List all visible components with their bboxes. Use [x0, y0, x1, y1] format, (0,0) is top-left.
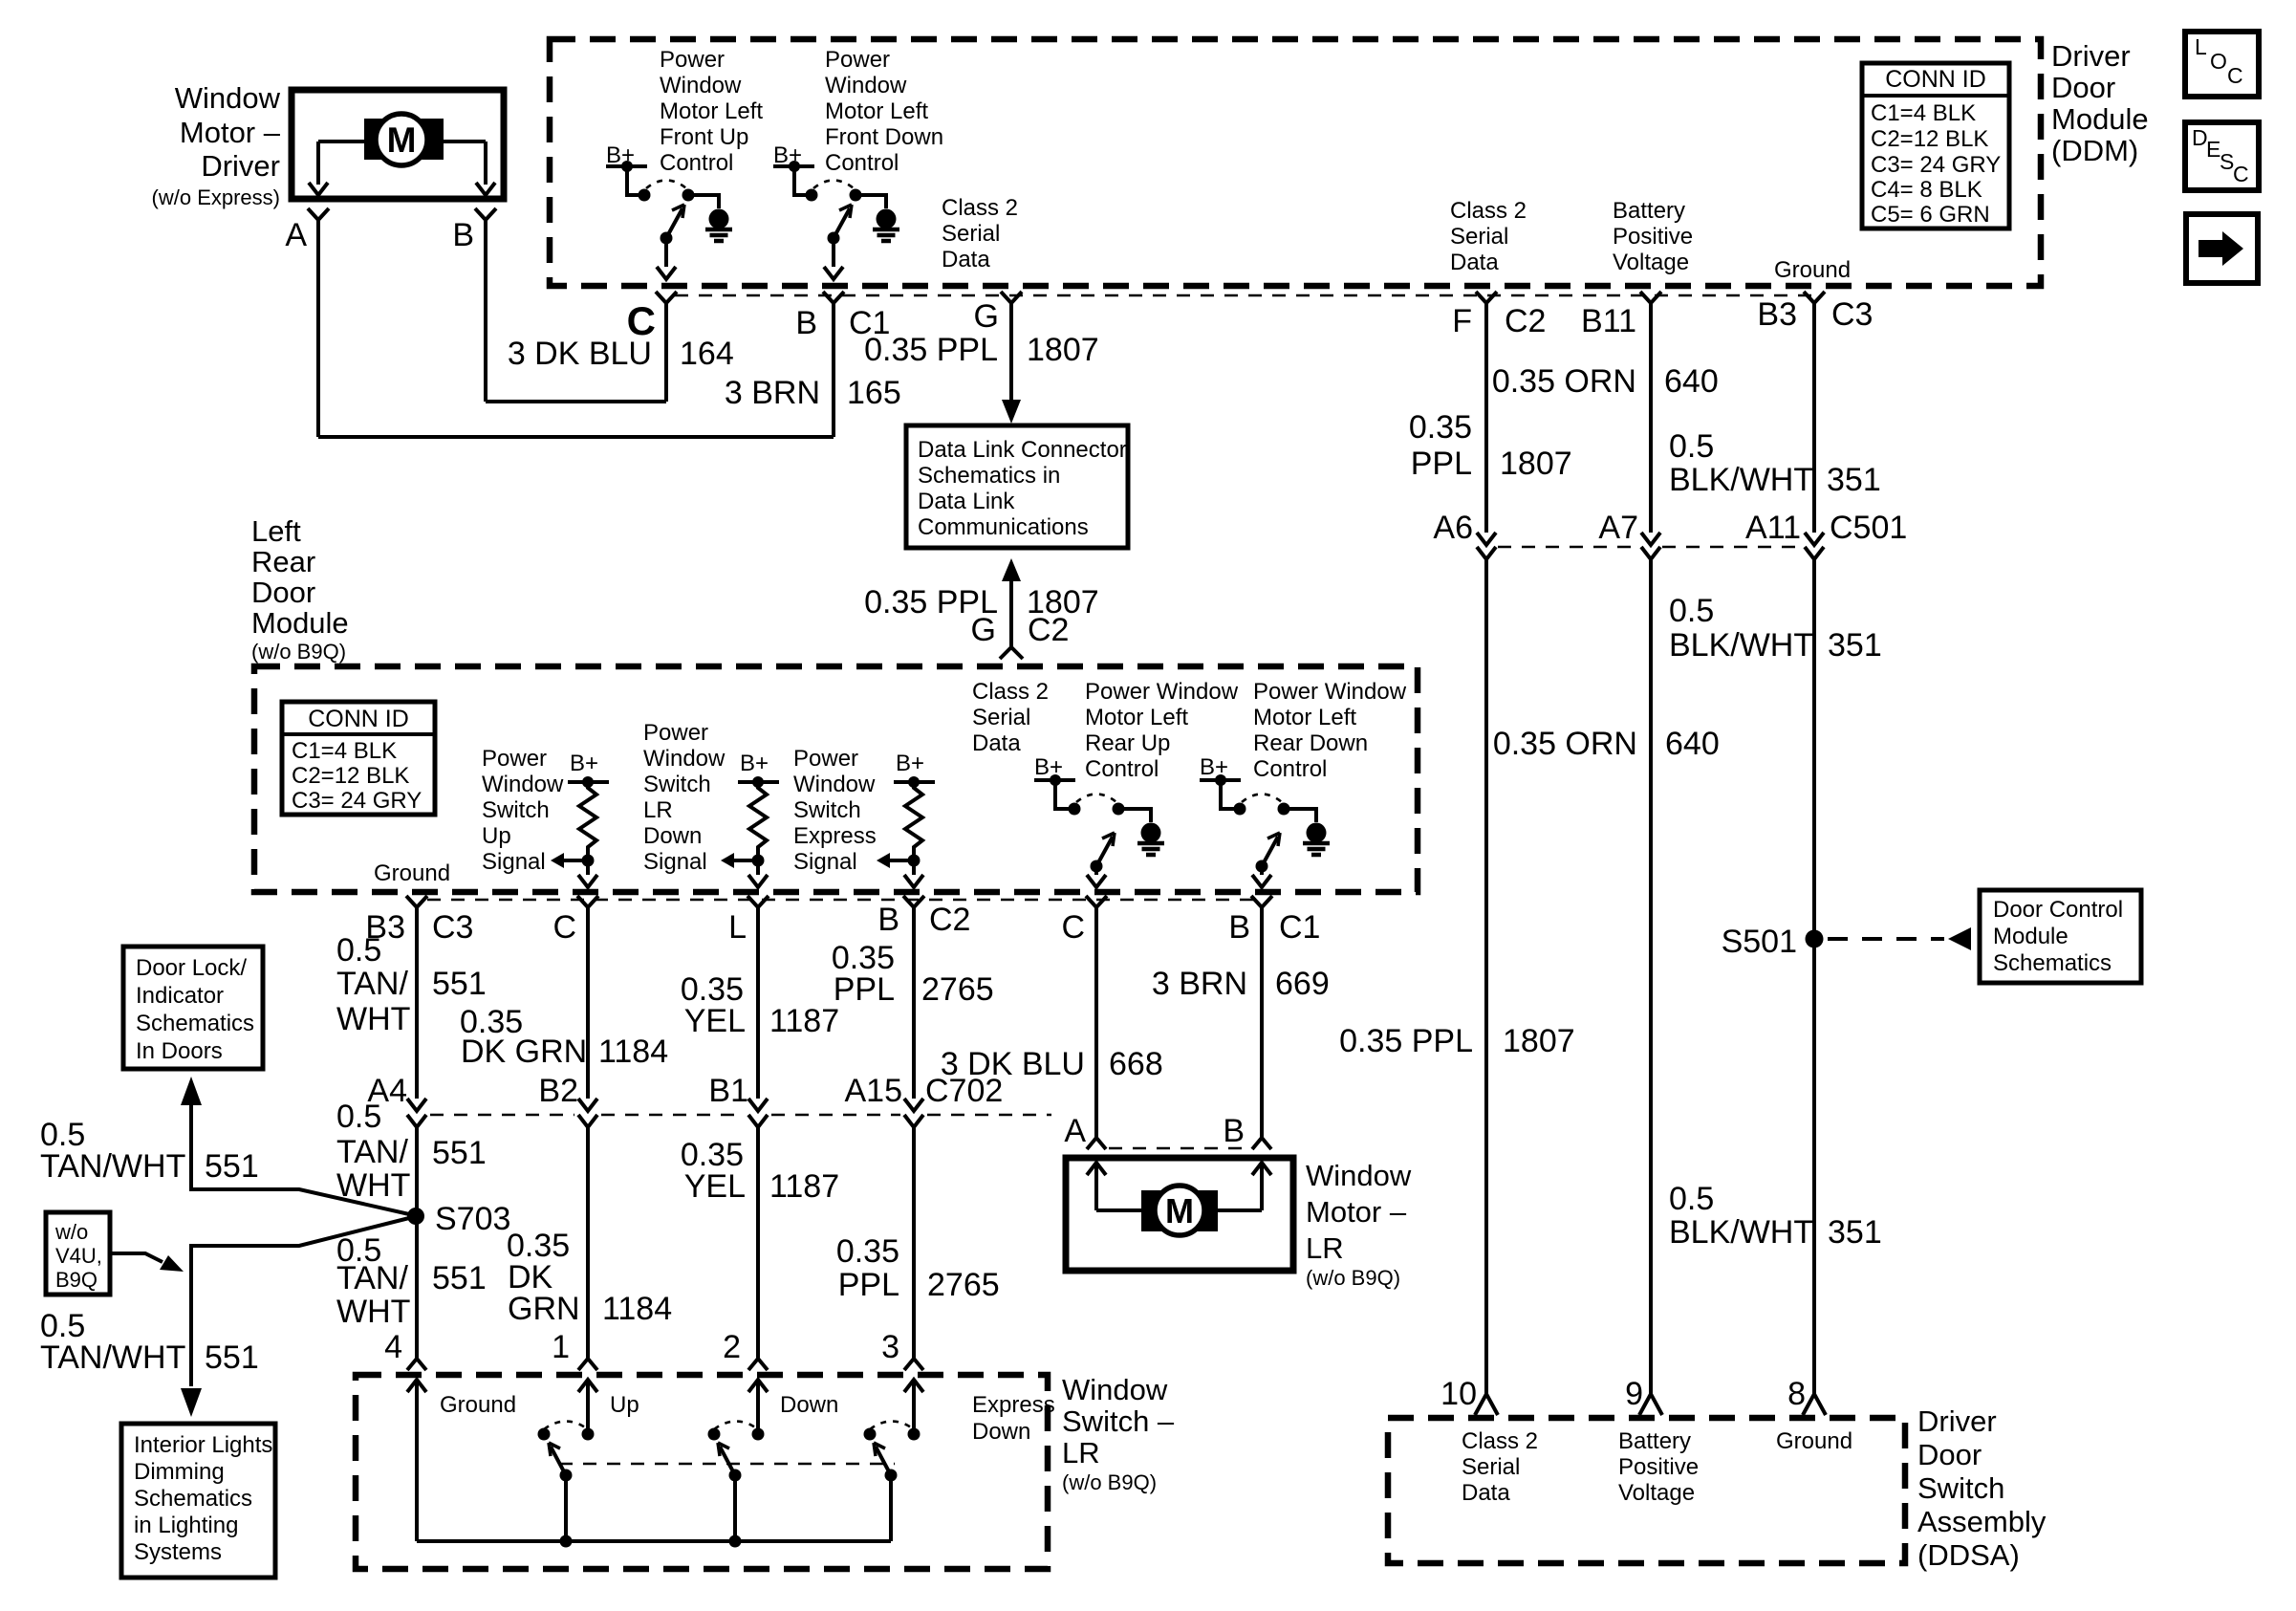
ground wire down to bus: [415, 1380, 419, 1541]
svg-text:Signal: Signal: [793, 849, 857, 875]
svg-text:Power: Power: [825, 47, 890, 73]
svg-text:1807: 1807: [1500, 446, 1572, 482]
svg-text:V4U,: V4U,: [55, 1244, 102, 1268]
svg-text:M: M: [1165, 1191, 1194, 1230]
wire from B down: [484, 233, 487, 402]
label 0.5 TAN/WHT 551 (lower mid): [336, 1099, 487, 1204]
arrow down to interior lights box: [181, 1388, 202, 1417]
svg-text:Window: Window: [175, 81, 281, 115]
svg-text:B: B: [452, 217, 474, 253]
svg-text:Interior Lights: Interior Lights: [134, 1432, 272, 1458]
svg-text:L: L: [2195, 34, 2207, 59]
resistor R-up: [551, 751, 609, 887]
pin B C1 connector: [823, 292, 844, 316]
svg-text:Switch: Switch: [793, 797, 861, 823]
pin L connector (down signal): [747, 896, 769, 921]
svg-text:1: 1: [552, 1329, 570, 1365]
svg-text:Data Link Connector: Data Link Connector: [918, 437, 1127, 463]
svg-text:B: B: [1223, 1113, 1245, 1149]
wires down to window switch LR: [415, 1127, 419, 1359]
arrow up to door lock box: [181, 1077, 202, 1105]
svg-text:Motor Left: Motor Left: [825, 98, 928, 124]
svg-text:G: G: [974, 298, 999, 335]
motor M1 symbol: [364, 114, 444, 165]
svg-text:Up: Up: [482, 823, 511, 849]
wire horizontal BRN 165 run: [318, 435, 834, 439]
svg-text:Class 2: Class 2: [1450, 198, 1527, 224]
svg-text:Communications: Communications: [918, 514, 1089, 540]
svg-text:10: 10: [1440, 1376, 1477, 1412]
svg-text:LR: LR: [643, 797, 673, 823]
contact dots SW1: [639, 189, 651, 202]
DESC box: [2185, 122, 2259, 190]
label Window Motor - LR: [1306, 1159, 1412, 1290]
switch K2 down: [708, 1422, 765, 1542]
svg-text:2765: 2765: [921, 971, 994, 1008]
svg-text:0.5: 0.5: [336, 932, 381, 969]
wire B+ to contact: [794, 166, 806, 195]
svg-text:Serial: Serial: [1450, 224, 1508, 250]
svg-text:WHT: WHT: [336, 1294, 410, 1330]
svg-text:B9Q: B9Q: [55, 1268, 97, 1292]
svg-text:C501: C501: [1830, 510, 1907, 546]
arrow from w/o box: [110, 1253, 162, 1262]
svg-text:4: 4: [384, 1329, 402, 1365]
pin B11 connector: [1640, 292, 1661, 316]
svg-text:0.35: 0.35: [1409, 409, 1472, 446]
label 0.35 PPL 1807 (F wire upper): [1409, 409, 1572, 482]
svg-text:0.5: 0.5: [1669, 1181, 1714, 1217]
door lock indicator schematics box: [123, 947, 263, 1069]
svg-text:Rear: Rear: [251, 545, 315, 578]
svg-text:DK GRN: DK GRN: [461, 1034, 587, 1070]
svg-text:Data: Data: [972, 730, 1021, 756]
svg-text:0.5: 0.5: [1669, 593, 1714, 629]
svg-text:Class 2: Class 2: [1462, 1428, 1538, 1454]
svg-text:Front Down: Front Down: [825, 124, 943, 150]
pin wires down to contacts: [586, 1380, 590, 1428]
svg-text:YEL: YEL: [684, 1168, 746, 1205]
svg-text:Switch: Switch: [482, 797, 550, 823]
connector pin B: [475, 208, 496, 233]
svg-text:C702: C702: [925, 1073, 1003, 1109]
svg-text:A: A: [1064, 1113, 1086, 1149]
pin C connector (up signal): [577, 896, 598, 921]
wire contact to ground SW2: [856, 195, 886, 208]
arrow down to pin A inside box: [309, 183, 328, 195]
svg-text:Switch –: Switch –: [1062, 1404, 1175, 1438]
svg-text:B+: B+: [570, 751, 598, 776]
svg-text:9: 9: [1625, 1376, 1643, 1412]
svg-text:Positive: Positive: [1613, 224, 1693, 250]
w/o V4U B9Q box: [46, 1212, 110, 1295]
svg-text:551: 551: [205, 1339, 259, 1376]
label Window Motor - Driver: [152, 81, 281, 209]
window motor driver box: [292, 90, 504, 199]
wire rear-down pin down to motor B: [1260, 921, 1264, 1138]
pin B3 C3 connector: [1804, 292, 1825, 316]
switch K3 express: [864, 1422, 921, 1542]
svg-text:3 DK BLU: 3 DK BLU: [508, 336, 652, 372]
svg-text:BLK/WHT: BLK/WHT: [1669, 462, 1813, 498]
switch SW4 Rear Down: [1200, 754, 1330, 887]
svg-text:Power Window: Power Window: [1253, 679, 1407, 705]
dashed travel arc SW2: [813, 181, 854, 189]
svg-text:8: 8: [1787, 1376, 1806, 1412]
DDSA dashed box: [1388, 1418, 1905, 1563]
pin B3 C3 connector (LRDM): [406, 896, 427, 921]
svg-text:Window: Window: [1306, 1159, 1412, 1192]
Driver Door Module dashed box: [550, 39, 2041, 286]
svg-text:LR: LR: [1062, 1436, 1100, 1469]
svg-text:C2: C2: [1028, 612, 1069, 648]
svg-text:2765: 2765: [927, 1267, 1000, 1303]
svg-text:A7: A7: [1598, 510, 1638, 546]
label Power Window Switch Up Signal: [482, 746, 564, 875]
svg-text:Window: Window: [793, 772, 876, 797]
up arrows on pin wires: [407, 1380, 426, 1392]
svg-text:BLK/WHT: BLK/WHT: [1669, 627, 1813, 664]
svg-text:Front Up: Front Up: [660, 124, 748, 150]
svg-text:C3= 24 GRY: C3= 24 GRY: [292, 788, 422, 814]
svg-text:Control: Control: [825, 150, 899, 176]
door control module schematics box: [1980, 890, 2141, 983]
label 0.35 PPL 2765 (upper): [832, 940, 994, 1008]
svg-text:S501: S501: [1722, 924, 1797, 960]
window motor LR box: [1066, 1158, 1293, 1271]
svg-text:Class 2: Class 2: [972, 679, 1049, 705]
svg-text:0.35 PPL: 0.35 PPL: [1339, 1023, 1473, 1059]
svg-text:2: 2: [723, 1329, 741, 1365]
pin F C2 connector: [1476, 292, 1497, 316]
switch SW2 Front Down: [773, 142, 899, 279]
svg-text:Door: Door: [251, 576, 315, 609]
svg-text:1187: 1187: [769, 1168, 839, 1205]
svg-text:0.35: 0.35: [836, 1233, 899, 1270]
svg-text:(w/o B9Q): (w/o B9Q): [251, 640, 346, 664]
svg-text:Motor Left: Motor Left: [1253, 705, 1356, 730]
label 0.5 BLK/WHT 351 (second): [1669, 593, 1882, 664]
label Class 2 Serial Data (DDM G pin): [942, 195, 1018, 272]
svg-text:B+: B+: [740, 751, 769, 776]
svg-text:Data Link: Data Link: [918, 489, 1015, 514]
svg-text:Window: Window: [825, 73, 907, 98]
svg-text:Serial: Serial: [942, 221, 1000, 247]
wire motor leads: [318, 142, 486, 185]
svg-text:A11: A11: [1745, 510, 1801, 546]
svg-text:Motor Left: Motor Left: [660, 98, 763, 124]
label 0.35 DK GRN 1184 (upper): [460, 1004, 668, 1070]
contact dots SW2: [806, 189, 818, 202]
svg-text:Rear Up: Rear Up: [1085, 730, 1170, 756]
svg-text:B1: B1: [708, 1073, 748, 1109]
svg-text:551: 551: [432, 1135, 487, 1171]
svg-text:Dimming: Dimming: [134, 1459, 225, 1485]
label 0.5 BLK/WHT 351 (upper): [1669, 428, 1881, 498]
wires motor LR leads: [1096, 1208, 1262, 1212]
svg-text:Module: Module: [2051, 102, 2149, 136]
wire contact to ground SW1: [688, 195, 719, 208]
svg-text:in Lighting: in Lighting: [134, 1513, 238, 1538]
svg-text:Down: Down: [643, 823, 702, 849]
svg-text:B: B: [877, 902, 899, 938]
solid arrow up out of data link box: [1002, 558, 1021, 581]
wire data link to LRDM: [1009, 579, 1013, 646]
svg-text:Ground: Ground: [440, 1392, 516, 1418]
svg-text:B3: B3: [1757, 296, 1797, 333]
svg-text:Serial: Serial: [1462, 1454, 1520, 1480]
inverted connectors into motor LR: [1087, 1138, 1106, 1149]
solid arrow into data link box: [1002, 400, 1021, 424]
svg-text:Down: Down: [972, 1419, 1030, 1445]
svg-text:Driver: Driver: [201, 149, 280, 183]
CONN ID table LRDM: [282, 702, 435, 815]
interior lights dimming box: [121, 1424, 275, 1578]
LRDM bottom pins: [427, 899, 1264, 902]
svg-text:Schematics: Schematics: [136, 1011, 254, 1036]
svg-text:Door Control: Door Control: [1993, 897, 2123, 923]
svg-text:Schematics in: Schematics in: [918, 463, 1060, 489]
up arrows inside motor box: [1087, 1163, 1106, 1175]
svg-text:Down: Down: [780, 1392, 838, 1418]
svg-text:PPL: PPL: [1411, 446, 1472, 482]
svg-text:(DDM): (DDM): [2051, 134, 2138, 167]
svg-text:C3: C3: [1831, 296, 1873, 333]
thin dashed connector line under DDM: [675, 294, 1814, 297]
svg-text:Switch: Switch: [1917, 1471, 2004, 1505]
svg-text:Control: Control: [660, 150, 733, 176]
label Driver Door Switch Assembly (DDSA): [1917, 1404, 2047, 1572]
svg-text:CONN ID: CONN ID: [308, 706, 409, 732]
svg-text:1184: 1184: [602, 1291, 672, 1327]
svg-text:C2=12 BLK: C2=12 BLK: [292, 763, 409, 789]
svg-text:L: L: [728, 909, 747, 946]
svg-text:Power: Power: [643, 720, 708, 746]
svg-text:3 BRN: 3 BRN: [1152, 966, 1247, 1002]
wire S703 lower leader: [191, 1218, 409, 1386]
svg-text:164: 164: [680, 336, 734, 372]
svg-text:M: M: [387, 120, 417, 160]
dashed leader to door control module schematics: [1828, 937, 1944, 941]
svg-text:(w/o B9Q): (w/o B9Q): [1062, 1470, 1157, 1494]
pin B C1 connector (rear down): [1251, 896, 1272, 921]
svg-text:551: 551: [432, 1260, 487, 1296]
resistor R-express: [877, 751, 935, 887]
svg-text:Battery: Battery: [1613, 198, 1685, 224]
svg-text:Left: Left: [251, 514, 301, 548]
svg-text:TAN/WHT: TAN/WHT: [40, 1148, 185, 1185]
svg-text:Positive: Positive: [1618, 1454, 1699, 1480]
pin B C2 connector (express): [903, 896, 924, 921]
svg-text:Ground: Ground: [374, 860, 450, 886]
resistor R-down: [721, 751, 779, 887]
svg-text:3 BRN: 3 BRN: [725, 375, 820, 411]
svg-text:Door Lock/: Door Lock/: [136, 955, 247, 981]
svg-text:Schematics: Schematics: [134, 1486, 252, 1512]
svg-text:A6: A6: [1433, 510, 1473, 546]
svg-text:1807: 1807: [1027, 332, 1099, 368]
svg-text:669: 669: [1275, 966, 1330, 1002]
svg-text:(w/o Express): (w/o Express): [152, 185, 280, 209]
svg-text:Signal: Signal: [643, 849, 707, 875]
svg-text:A: A: [285, 217, 307, 253]
chevron into LRDM top: [1000, 647, 1023, 659]
label Power Window Motor Left Rear Down Control: [1253, 679, 1407, 782]
svg-text:CONN ID: CONN ID: [1885, 66, 1986, 93]
inverted connectors into switch box: [407, 1359, 426, 1370]
label 0.5 TAN/WHT 551 (upper): [336, 932, 487, 1037]
LOC box: [2185, 32, 2259, 97]
svg-text:Express: Express: [972, 1392, 1055, 1418]
label Class 2 Serial Data (DDM F pin): [1450, 198, 1527, 275]
label Window Switch - LR: [1062, 1373, 1175, 1494]
inverted connectors into DDSA: [1475, 1394, 1826, 1415]
svg-text:C: C: [2227, 63, 2243, 88]
label Battery Positive Voltage (DDSA): [1618, 1428, 1699, 1506]
svg-text:551: 551: [205, 1148, 259, 1185]
blade arrow SW1: [661, 232, 673, 245]
svg-text:1807: 1807: [1503, 1023, 1575, 1059]
svg-text:LR: LR: [1306, 1231, 1344, 1265]
label Class 2 Serial Data (DDSA): [1462, 1428, 1538, 1506]
CONN ID table DDM: [1862, 63, 2009, 229]
svg-text:Data: Data: [1462, 1480, 1510, 1506]
svg-text:Class 2: Class 2: [942, 195, 1018, 221]
svg-text:668: 668: [1109, 1046, 1163, 1082]
svg-text:(DDSA): (DDSA): [1917, 1538, 2020, 1572]
svg-text:C3= 24 GRY: C3= 24 GRY: [1871, 152, 2001, 178]
svg-text:Indicator: Indicator: [136, 983, 224, 1009]
svg-text:S703: S703: [435, 1201, 510, 1237]
wire pin B down: [832, 316, 835, 437]
svg-text:Signal: Signal: [482, 849, 546, 875]
svg-text:C5= 6 GRN: C5= 6 GRN: [1871, 202, 1990, 228]
svg-text:(w/o B9Q): (w/o B9Q): [1306, 1266, 1400, 1290]
svg-text:Power: Power: [793, 746, 858, 772]
svg-text:C: C: [2233, 162, 2249, 186]
svg-text:640: 640: [1664, 363, 1719, 400]
window switch LR dashed box: [356, 1375, 1048, 1569]
svg-text:1184: 1184: [598, 1034, 668, 1070]
svg-text:Window: Window: [1062, 1373, 1168, 1406]
label Driver Door Module (DDM): [2051, 39, 2149, 167]
svg-text:PPL: PPL: [834, 971, 895, 1008]
svg-text:C1: C1: [1279, 909, 1320, 946]
svg-text:C3: C3: [432, 909, 473, 946]
svg-text:Door: Door: [1917, 1438, 1982, 1471]
svg-text:1187: 1187: [769, 1003, 839, 1039]
arrow down to pin B inside box: [476, 183, 495, 195]
pin G connector: [1001, 292, 1022, 316]
svg-text:C: C: [1061, 909, 1085, 946]
svg-text:Data: Data: [1450, 250, 1499, 275]
svg-text:B2: B2: [538, 1073, 578, 1109]
svg-text:Rear Down: Rear Down: [1253, 730, 1368, 756]
svg-text:Schematics: Schematics: [1993, 950, 2112, 976]
svg-text:Serial: Serial: [972, 705, 1030, 730]
svg-text:TAN/: TAN/: [336, 966, 408, 1002]
wires continue down to DDSA: [1484, 559, 1488, 1398]
svg-text:C: C: [552, 909, 576, 946]
wire B11 battery down: [1649, 316, 1653, 533]
label 0.5 BLK/WHT 351 (third): [1669, 1181, 1882, 1251]
svg-text:Window: Window: [643, 746, 726, 772]
svg-text:TAN/: TAN/: [336, 1134, 408, 1170]
pin C connector: [656, 292, 677, 316]
svg-text:Power: Power: [660, 47, 725, 73]
motor M2 symbol: [1141, 1186, 1218, 1235]
wire blade to pin C: [664, 244, 668, 267]
pin C connector (rear up): [1086, 896, 1107, 921]
label 0.35 PPL 2765 (lower): [836, 1233, 1000, 1303]
svg-text:Assembly: Assembly: [1917, 1505, 2047, 1538]
svg-text:B: B: [795, 305, 817, 341]
svg-text:YEL: YEL: [684, 1003, 746, 1039]
wire rear-up pin down to motor A: [1094, 921, 1098, 1138]
svg-text:w/o: w/o: [54, 1220, 88, 1244]
svg-text:351: 351: [1828, 627, 1882, 664]
svg-text:Power: Power: [482, 746, 547, 772]
svg-text:Up: Up: [610, 1392, 639, 1418]
label 0.5 TAN/WHT 551 (far left lower): [40, 1308, 259, 1376]
wire pin G down: [1009, 316, 1013, 401]
wire blade to pin B: [832, 244, 835, 267]
ground symbol SW1: [705, 209, 732, 242]
svg-text:640: 640: [1665, 726, 1720, 762]
svg-text:Ground: Ground: [1774, 257, 1851, 283]
wire B+ to contact: [627, 166, 639, 195]
svg-text:Switch: Switch: [643, 772, 711, 797]
svg-text:GRN: GRN: [508, 1291, 580, 1327]
data link connector box: [906, 425, 1128, 548]
svg-text:0.5: 0.5: [1669, 428, 1714, 465]
label 0.35 DK GRN 1184 (lower): [507, 1228, 672, 1327]
label 0.5 TAN/WHT 551 (third): [336, 1232, 487, 1330]
wire from A down: [316, 233, 320, 437]
wire F/C2 class2 serial data down: [1484, 316, 1488, 533]
svg-text:PPL: PPL: [838, 1267, 899, 1303]
svg-text:Module: Module: [251, 606, 349, 640]
ground bus wire: [417, 1539, 891, 1543]
svg-text:0.35 ORN: 0.35 ORN: [1492, 363, 1636, 400]
svg-text:C2=12 BLK: C2=12 BLK: [1871, 126, 1988, 152]
svg-text:BLK/WHT: BLK/WHT: [1669, 1214, 1813, 1251]
svg-text:C2: C2: [1505, 303, 1546, 339]
label Power Window Switch LR Down Signal: [643, 720, 726, 875]
svg-text:TAN/WHT: TAN/WHT: [40, 1339, 185, 1376]
label Power Window Switch Express Signal: [793, 746, 877, 875]
wires LRDM pins down to A4 row: [415, 921, 419, 1099]
label Left Rear Door Module: [251, 514, 349, 664]
svg-text:F: F: [1452, 303, 1472, 339]
svg-text:A15: A15: [845, 1073, 903, 1109]
svg-text:G: G: [971, 612, 996, 648]
svg-text:Door: Door: [2051, 71, 2115, 104]
svg-text:Motor –: Motor –: [1306, 1195, 1407, 1229]
switch SW3 Rear Up: [1034, 754, 1164, 887]
svg-text:Power Window: Power Window: [1085, 679, 1239, 705]
LRDM dashed box: [254, 666, 1418, 892]
switch SW1 Front Up (B+ / blade / ground): [606, 142, 732, 279]
svg-text:B+: B+: [896, 751, 924, 776]
label 0.5 TAN/WHT 551 (far left upper): [40, 1117, 259, 1185]
svg-text:Window: Window: [660, 73, 742, 98]
dashed travel arc SW1: [646, 181, 686, 189]
svg-text:Motor –: Motor –: [180, 116, 281, 149]
label Class 2 Serial Data (LRDM): [972, 679, 1049, 756]
svg-text:0.5: 0.5: [336, 1099, 381, 1135]
svg-text:Module: Module: [1993, 924, 2069, 949]
